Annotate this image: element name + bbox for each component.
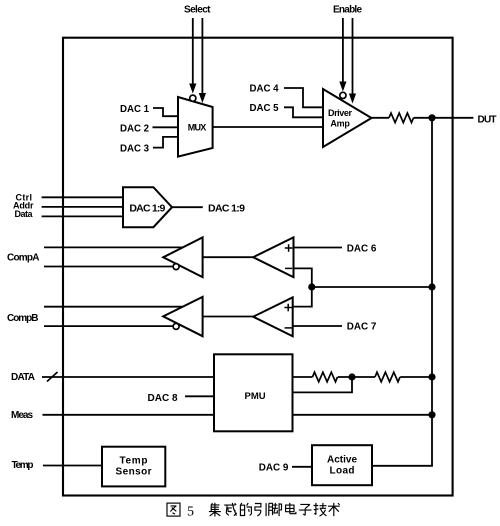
wire DAC2 to MUX: [153, 126, 179, 128]
wire DAC9 to active load: [292, 466, 312, 468]
glyph ji2: [209, 503, 221, 517]
wire CompB lower: [44, 325, 173, 327]
wire PMU sense feedback: [293, 377, 353, 392]
temp sensor box: [102, 447, 165, 487]
mux U1: [178, 97, 213, 157]
resistor R3: [375, 372, 400, 382]
plus sign comparator B: [284, 304, 292, 312]
PMU box: [214, 354, 293, 431]
wire DAC1 to MUX: [153, 108, 179, 116]
active load box: [312, 445, 372, 485]
wire MUX to driver: [213, 126, 323, 128]
glyph de: [240, 503, 251, 516]
svg-text:DATA: DATA: [11, 372, 35, 383]
select arrow 1: [189, 18, 196, 94]
driver amp U2: [323, 89, 372, 147]
glyph shu: [328, 503, 340, 516]
svg-text:Sensor: Sensor: [116, 466, 152, 477]
node bus meas: [428, 411, 435, 418]
wire DAC 1:9 output: [172, 206, 203, 208]
svg-text:CompA: CompA: [7, 253, 40, 264]
glyph yin: [255, 503, 266, 516]
wire buffer A input: [203, 256, 253, 258]
svg-text:CompB: CompB: [7, 313, 39, 324]
svg-text:MUX: MUX: [188, 123, 207, 133]
minus sign comparator B: [285, 327, 292, 329]
svg-text:DAC 1:9: DAC 1:9: [208, 202, 245, 214]
wire R3 to bus: [400, 376, 432, 378]
resistor R2: [313, 372, 338, 382]
wire DAC4 to driver: [284, 88, 323, 107]
wire Meas right: [293, 414, 433, 416]
glyph dian: [286, 503, 296, 514]
wire DATA to PMU: [42, 376, 214, 378]
buffer B: [163, 297, 202, 336]
svg-text:DUT: DUT: [478, 115, 497, 126]
resistor R1: [389, 113, 414, 123]
buffer A: [163, 237, 202, 277]
wire junction to bus: [312, 286, 432, 288]
enable arrow 1: [339, 18, 346, 92]
svg-text:DAC 8: DAC 8: [148, 393, 178, 404]
wire CompB upper: [44, 306, 182, 308]
wire DAC8 to PMU: [185, 395, 214, 397]
wire Temp to sensor: [43, 465, 103, 467]
svg-text:DAC 1:9: DAC 1:9: [129, 202, 165, 214]
glyph ji4: [314, 503, 327, 516]
svg-text:Active: Active: [327, 454, 357, 465]
svg-text:DAC 9: DAC 9: [259, 463, 289, 474]
svg-text:Data: Data: [15, 209, 34, 219]
bubble buffer A: [173, 264, 179, 270]
node bus force: [428, 373, 435, 380]
wire Meas left: [43, 414, 215, 416]
svg-text:Meas: Meas: [11, 410, 33, 421]
comparator A: [253, 237, 293, 277]
caption: 图 5 集成的引脚电子技术: [167, 503, 340, 520]
wire PMU force output: [293, 376, 313, 378]
enable inversion bubble: [340, 92, 346, 98]
wire driver output: [372, 117, 390, 119]
wire DAC5 to driver: [284, 107, 323, 117]
wire Data: [42, 215, 123, 217]
svg-text:PMU: PMU: [245, 391, 266, 402]
wire resistor to DUT: [414, 117, 474, 119]
wire Addr: [42, 206, 123, 208]
node DUT junction: [428, 114, 435, 121]
svg-text:Temp: Temp: [120, 456, 148, 467]
wire right vertical bus: [372, 118, 432, 466]
node comparator junction: [308, 283, 315, 290]
wire DAC6 to plus: [294, 247, 343, 249]
node bus comparator: [428, 283, 435, 290]
wire CompA upper: [44, 246, 182, 248]
svg-text:Driver: Driver: [328, 108, 352, 118]
svg-text:Select: Select: [184, 5, 211, 16]
svg-text:5: 5: [187, 505, 194, 520]
wire Ctrl: [42, 196, 123, 198]
svg-text:DAC 2: DAC 2: [120, 124, 149, 135]
svg-text:Amp: Amp: [330, 119, 350, 129]
glyph jiao: [269, 503, 282, 516]
wire R2 to R3: [338, 376, 375, 378]
node sense junction: [348, 373, 355, 380]
comparator B: [253, 297, 293, 336]
svg-text:Enable: Enable: [333, 5, 362, 16]
svg-text:DAC 3: DAC 3: [120, 144, 150, 155]
svg-text:DAC 7: DAC 7: [347, 322, 377, 333]
svg-text:DAC 1: DAC 1: [120, 104, 150, 115]
svg-text:DAC 4: DAC 4: [250, 84, 280, 95]
glyph tu: [167, 503, 180, 516]
wire buffer B input: [203, 316, 253, 318]
svg-text:DAC 6: DAC 6: [347, 243, 377, 254]
select arrow 2: [199, 18, 206, 103]
svg-text:Temp: Temp: [12, 460, 34, 471]
select inversion bubble: [190, 95, 196, 101]
glyph zi: [299, 504, 312, 515]
wire comparator A minus down: [293, 268, 312, 306]
wire DAC3 to MUX: [153, 137, 179, 148]
outer box: [63, 38, 453, 496]
DAC 1:9 block: [123, 187, 172, 227]
bubble buffer B: [173, 323, 179, 329]
minus sign comparator A: [285, 267, 292, 269]
svg-text:Load: Load: [330, 465, 355, 476]
glyph cheng: [224, 503, 237, 516]
svg-text:DAC 5: DAC 5: [250, 103, 280, 114]
enable arrow 2: [349, 18, 356, 104]
wire CompA lower: [44, 266, 173, 268]
wire DAC7 to minus: [293, 325, 342, 327]
bus slash: [47, 372, 58, 382]
plus sign comparator A: [285, 244, 293, 252]
